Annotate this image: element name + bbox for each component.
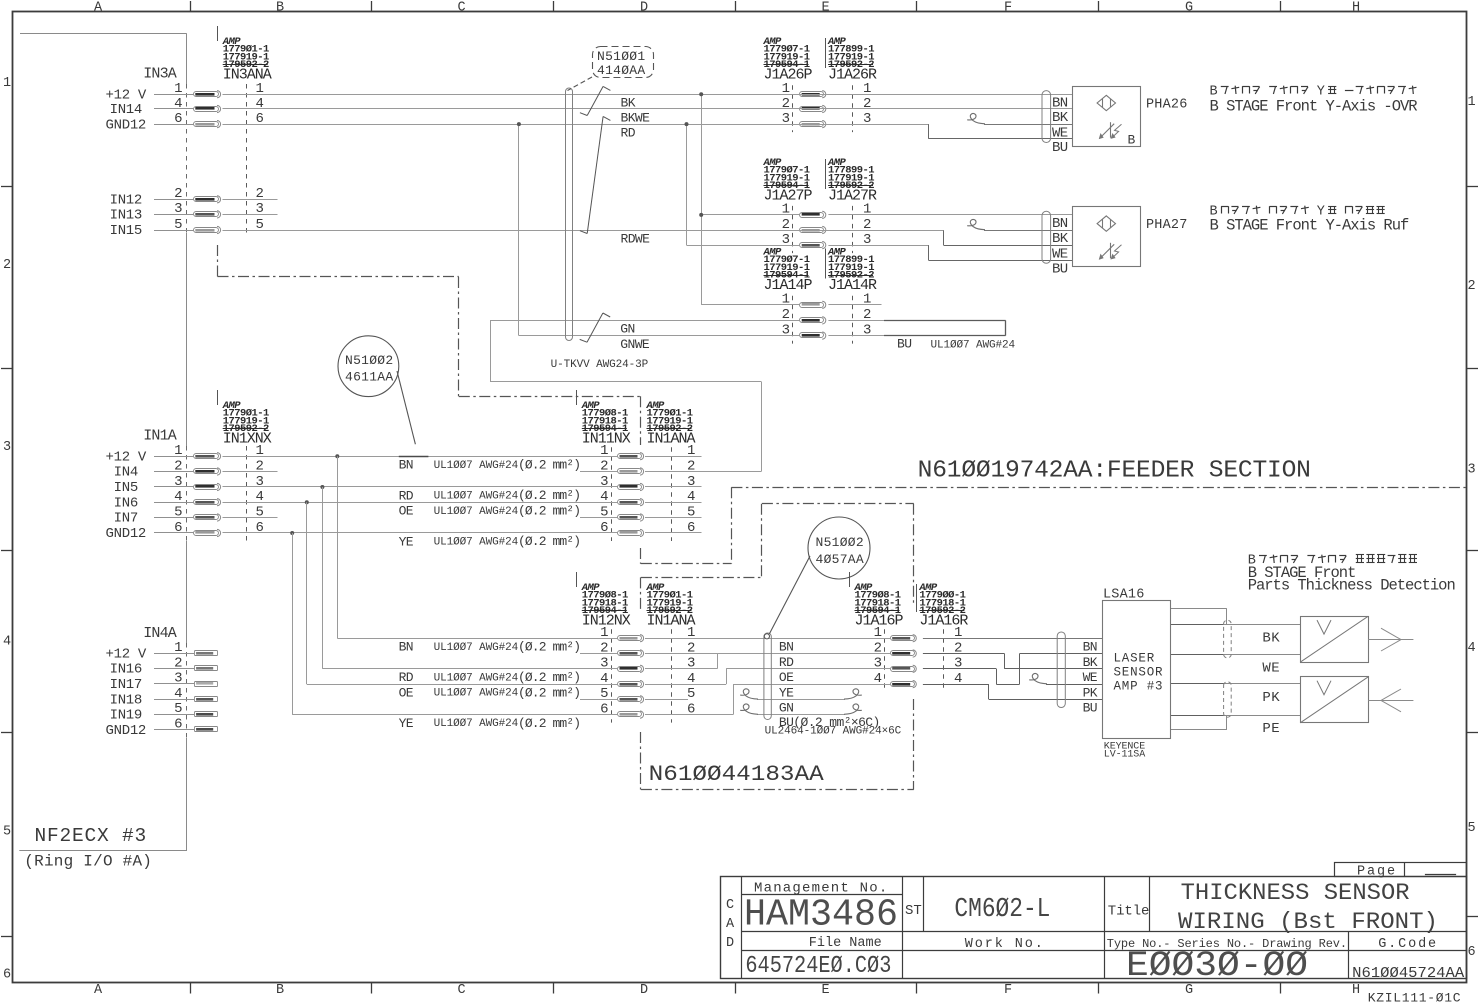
svg-text:IN5: IN5 [114, 480, 138, 496]
svg-text:LSA16: LSA16 [1103, 588, 1145, 603]
svg-text:4: 4 [174, 489, 182, 505]
svg-text:IN15: IN15 [110, 223, 142, 239]
svg-text:PE: PE [1262, 721, 1280, 737]
svg-text:3: 3 [600, 656, 608, 672]
svg-text:BK: BK [1262, 631, 1280, 647]
svg-text:H: H [1352, 1, 1360, 16]
svg-text:1: 1 [174, 81, 182, 97]
svg-text:OE: OE [779, 670, 794, 685]
svg-text:IN18: IN18 [110, 692, 142, 708]
svg-text:4Ø57AA: 4Ø57AA [816, 552, 864, 567]
svg-text:HAM3486: HAM3486 [744, 894, 898, 937]
svg-text:+12 V: +12 V [106, 449, 147, 465]
svg-text:BK: BK [1052, 110, 1069, 126]
svg-text:IN1A: IN1A [143, 428, 177, 445]
svg-text:WE: WE [1052, 125, 1068, 141]
svg-text:IN7: IN7 [114, 511, 138, 527]
svg-text:IN16: IN16 [110, 662, 142, 678]
svg-text:A: A [94, 983, 103, 998]
svg-text:2: 2 [174, 458, 182, 474]
svg-text:UL1ØØ7 AWG#24: UL1ØØ7 AWG#24 [434, 642, 519, 654]
svg-text:UL1ØØ7 AWG#24: UL1ØØ7 AWG#24 [434, 718, 519, 730]
svg-text:(Ring I/O #A): (Ring I/O #A) [24, 853, 152, 871]
svg-text:N61ØØ44183AA: N61ØØ44183AA [649, 762, 825, 787]
svg-text:Page: Page [1357, 864, 1397, 879]
svg-text:GN: GN [620, 322, 634, 337]
svg-text:414ØAA: 414ØAA [597, 63, 645, 78]
svg-text:B STAGE Front Y-Axis -OVR: B STAGE Front Y-Axis -OVR [1210, 98, 1418, 116]
svg-text:1: 1 [174, 443, 182, 459]
svg-text:C: C [457, 1, 465, 16]
svg-text:2: 2 [1467, 279, 1475, 294]
svg-text:3: 3 [687, 474, 695, 490]
svg-text:IN6: IN6 [114, 495, 138, 511]
svg-text:YE: YE [779, 685, 794, 700]
svg-text:BU: BU [897, 337, 911, 352]
svg-text:WE: WE [1262, 660, 1280, 676]
svg-text:THICKNESS SENSOR: THICKNESS SENSOR [1181, 880, 1410, 906]
svg-text:1: 1 [1467, 95, 1475, 110]
svg-text:3: 3 [954, 656, 962, 672]
svg-text:C: C [457, 983, 465, 998]
svg-text:+12 V: +12 V [106, 647, 147, 663]
svg-text:RD: RD [621, 125, 636, 140]
svg-text:UL1ØØ7 AWG#24: UL1ØØ7 AWG#24 [434, 460, 519, 472]
svg-text:SENSOR: SENSOR [1114, 666, 1164, 680]
svg-text:YE: YE [399, 716, 414, 731]
svg-text:6: 6 [600, 520, 608, 536]
svg-text:IN1XNX: IN1XNX [223, 430, 272, 447]
svg-text:1: 1 [782, 292, 790, 308]
svg-text:+12 V: +12 V [106, 87, 147, 103]
svg-text:Work No.: Work No. [965, 937, 1045, 952]
svg-text:UL1ØØ7 AWG#24: UL1ØØ7 AWG#24 [434, 688, 519, 700]
svg-text:PK: PK [1083, 685, 1098, 700]
svg-text:BK: BK [1052, 231, 1069, 247]
svg-text:U-TKVV AWG24-3P: U-TKVV AWG24-3P [551, 359, 649, 371]
svg-text:GNWE: GNWE [620, 337, 650, 352]
svg-text:BN: BN [399, 640, 413, 655]
svg-text:BN: BN [1083, 640, 1097, 655]
svg-text:3: 3 [874, 656, 882, 672]
svg-text:1: 1 [863, 292, 871, 308]
svg-text:F: F [1004, 1, 1012, 16]
svg-text:IN3ANA: IN3ANA [223, 66, 272, 83]
svg-text:WE: WE [1052, 246, 1068, 262]
svg-text:C: C [726, 898, 734, 913]
svg-text:GND12: GND12 [106, 117, 147, 133]
svg-text:1: 1 [3, 76, 11, 91]
svg-text:D: D [640, 983, 648, 998]
svg-text:UL1ØØ7 AWG#24: UL1ØØ7 AWG#24 [434, 506, 519, 518]
svg-text:UL2464-1ØØ7 AWG#24×6C: UL2464-1ØØ7 AWG#24×6C [765, 726, 902, 738]
svg-text:IN3A: IN3A [143, 66, 177, 83]
svg-text:3: 3 [174, 474, 182, 490]
svg-text:5: 5 [174, 504, 182, 520]
svg-text:5: 5 [3, 825, 11, 840]
svg-text:Parts Thickness Detection: Parts Thickness Detection [1248, 577, 1455, 595]
svg-text:B: B [276, 983, 284, 998]
svg-text:1: 1 [174, 640, 182, 656]
svg-text:IN4: IN4 [114, 465, 138, 481]
svg-text:IN14: IN14 [110, 102, 142, 118]
svg-text:5: 5 [1467, 821, 1475, 836]
svg-text:3: 3 [3, 440, 11, 455]
svg-text:PHA26: PHA26 [1146, 98, 1188, 113]
svg-text:6: 6 [3, 968, 11, 983]
svg-text:A: A [94, 1, 103, 16]
svg-text:6: 6 [174, 111, 182, 127]
svg-text:4611AA: 4611AA [345, 370, 393, 385]
svg-text:6: 6 [174, 716, 182, 732]
svg-text:RD: RD [399, 488, 414, 503]
svg-text:LASER: LASER [1114, 652, 1156, 666]
svg-text:(Ø.2 mm²): (Ø.2 mm²) [518, 488, 580, 503]
svg-text:3: 3 [1467, 463, 1475, 478]
svg-text:N51ØØ1: N51ØØ1 [597, 49, 645, 64]
svg-text:5: 5 [174, 217, 182, 233]
svg-text:RD: RD [779, 655, 794, 670]
svg-text:BK: BK [1083, 655, 1098, 670]
svg-text:G.Code: G.Code [1378, 937, 1438, 952]
svg-text:BN: BN [1052, 216, 1068, 232]
svg-text:UL1ØØ7 AWG#24: UL1ØØ7 AWG#24 [434, 491, 519, 503]
svg-text:KZIL111-Ø1C: KZIL111-Ø1C [1368, 991, 1462, 1003]
svg-text:PK: PK [1262, 690, 1280, 706]
svg-text:5: 5 [174, 701, 182, 717]
svg-text:(Ø.2 mm²): (Ø.2 mm²) [518, 457, 580, 472]
svg-text:GND12: GND12 [106, 526, 147, 542]
svg-text:BU: BU [1052, 140, 1068, 156]
svg-text:(Ø.2 mm²): (Ø.2 mm²) [518, 685, 580, 700]
svg-text:File Name: File Name [809, 936, 882, 951]
svg-text:LV-11SA: LV-11SA [1104, 749, 1145, 760]
svg-text:E: E [821, 983, 829, 998]
svg-text:BN: BN [779, 640, 793, 655]
svg-text:CM6Ø2-L: CM6Ø2-L [954, 895, 1050, 925]
svg-text:2: 2 [863, 96, 871, 112]
svg-text:1: 1 [782, 202, 790, 218]
svg-text:OE: OE [399, 504, 414, 519]
svg-text:N61ØØ45724AA: N61ØØ45724AA [1352, 965, 1464, 982]
svg-text:4: 4 [174, 686, 182, 702]
svg-text:RD: RD [399, 670, 414, 685]
svg-text:E: E [821, 1, 829, 16]
svg-text:(Ø.2 mm²): (Ø.2 mm²) [518, 716, 580, 731]
svg-text:3: 3 [174, 671, 182, 687]
svg-text:G: G [1185, 1, 1193, 16]
svg-text:BU: BU [1083, 701, 1097, 716]
svg-text:2: 2 [782, 96, 790, 112]
svg-text:2: 2 [3, 258, 11, 273]
svg-text:GND12: GND12 [106, 723, 147, 739]
svg-text:3: 3 [256, 474, 264, 490]
svg-text:RDWE: RDWE [621, 231, 651, 246]
svg-text:EØØ3Ø-ØØ: EØØ3Ø-ØØ [1126, 946, 1308, 986]
svg-text:3: 3 [687, 656, 695, 672]
svg-text:IN4A: IN4A [143, 625, 177, 642]
svg-text:4: 4 [3, 635, 11, 650]
svg-text:3: 3 [600, 474, 608, 490]
svg-text:WIRING (Bst FRONT): WIRING (Bst FRONT) [1178, 909, 1438, 935]
svg-text:Title: Title [1108, 904, 1150, 920]
svg-text:UL1ØØ7 AWG#24: UL1ØØ7 AWG#24 [434, 537, 519, 549]
svg-text:YE: YE [399, 534, 414, 549]
svg-text:BKWE: BKWE [621, 110, 651, 125]
svg-text:N51ØØ2: N51ØØ2 [816, 535, 864, 550]
svg-text:2: 2 [174, 655, 182, 671]
svg-text:BN: BN [1052, 95, 1068, 111]
svg-text:(Ø.2 mm²): (Ø.2 mm²) [518, 503, 580, 518]
svg-text:IN19: IN19 [110, 708, 142, 724]
svg-text:PHA27: PHA27 [1146, 218, 1188, 233]
svg-text:6: 6 [687, 520, 695, 536]
svg-text:N51ØØ2: N51ØØ2 [345, 353, 393, 368]
svg-text:B: B [276, 1, 284, 16]
svg-text:(Ø.2 mm²): (Ø.2 mm²) [518, 670, 580, 685]
svg-text:IN12: IN12 [110, 193, 142, 209]
svg-text:BU: BU [1052, 261, 1068, 277]
svg-text:D: D [726, 936, 734, 951]
svg-text:BN: BN [399, 458, 413, 473]
svg-text:ST: ST [905, 903, 922, 919]
svg-text:5: 5 [687, 686, 695, 702]
svg-text:IN17: IN17 [110, 677, 142, 693]
svg-text:645724EØ.CØ3: 645724EØ.CØ3 [745, 953, 891, 980]
svg-text:AMP #3: AMP #3 [1114, 680, 1164, 694]
svg-text:B: B [1128, 133, 1136, 148]
svg-text:6: 6 [256, 520, 264, 536]
svg-text:N61ØØ19742AA:FEEDER SECTION: N61ØØ19742AA:FEEDER SECTION [918, 458, 1311, 485]
svg-text:F: F [1004, 983, 1012, 998]
svg-text:IN13: IN13 [110, 208, 142, 224]
svg-text:(Ø.2 mm²): (Ø.2 mm²) [518, 639, 580, 654]
svg-text:GN: GN [779, 701, 793, 716]
svg-text:UL1ØØ7 AWG#24: UL1ØØ7 AWG#24 [931, 340, 1016, 352]
svg-text:NF2ECX #3: NF2ECX #3 [35, 825, 148, 847]
svg-text:(Ø.2 mm²): (Ø.2 mm²) [518, 534, 580, 549]
svg-text:OE: OE [399, 685, 414, 700]
svg-text:WE: WE [1083, 670, 1098, 685]
svg-text:3: 3 [174, 201, 182, 217]
svg-text:2: 2 [174, 186, 182, 202]
svg-text:A: A [726, 917, 735, 932]
svg-text:1: 1 [863, 202, 871, 218]
svg-text:B STAGE Front Y-Axis Ruf: B STAGE Front Y-Axis Ruf [1210, 217, 1409, 235]
svg-text:4: 4 [174, 96, 182, 112]
svg-text:4: 4 [256, 96, 264, 112]
svg-text:H: H [1352, 983, 1360, 998]
svg-text:D: D [640, 1, 648, 16]
svg-text:BK: BK [621, 96, 636, 111]
svg-text:UL1ØØ7 AWG#24: UL1ØØ7 AWG#24 [434, 672, 519, 684]
svg-text:6: 6 [174, 520, 182, 536]
svg-text:6: 6 [1467, 945, 1475, 960]
svg-text:4: 4 [1467, 641, 1475, 656]
